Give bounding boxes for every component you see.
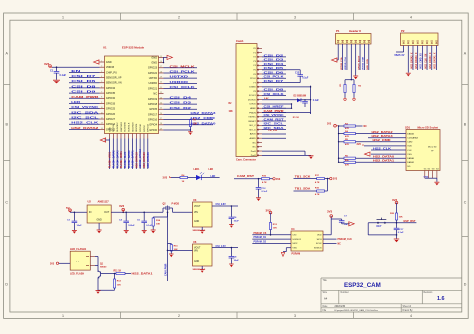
svg-text:U0RXD: U0RXD xyxy=(148,81,157,85)
wire power to LED flash xyxy=(59,262,70,264)
svg-text:10uF: 10uF xyxy=(234,260,240,262)
power rail vertical wire right of Cam1 xyxy=(310,86,312,114)
svg-text:GND: GND xyxy=(424,177,429,179)
svg-text:KEY: KEY xyxy=(377,225,382,228)
header P1 body xyxy=(336,34,372,45)
wire PCLK-row extension to rail xyxy=(286,82,300,84)
header P2 body xyxy=(401,33,439,46)
svg-text:GPIO23: GPIO23 xyxy=(148,66,158,70)
switch KEY xyxy=(377,218,387,229)
svg-text:LED: LED xyxy=(211,175,216,178)
resistor R13 pull-up xyxy=(269,223,277,235)
svg-text:CSI_XCLK: CSI_XCLK xyxy=(264,92,284,96)
svg-text:LED_FLASH1: LED_FLASH1 xyxy=(70,248,87,251)
svg-text:GPIO11: GPIO11 xyxy=(113,123,115,132)
svg-text:GPIO19: GPIO19 xyxy=(148,97,158,101)
svg-text:GPIO35: GPIO35 xyxy=(106,91,116,95)
svg-text:GPIO22: GPIO22 xyxy=(148,71,158,75)
P1 vertical net labels xyxy=(340,55,369,70)
svg-text:Number: Number xyxy=(341,291,349,294)
svg-text:C: C xyxy=(5,201,8,205)
svg-text:12: 12 xyxy=(101,117,103,119)
ground below C4 xyxy=(124,229,129,231)
svg-text:NC: NC xyxy=(153,92,157,96)
svg-text:I2C_SCL: I2C_SCL xyxy=(264,122,285,126)
power 3V3 right of R16 xyxy=(273,178,281,181)
terminal circles under resistors xyxy=(344,98,346,100)
svg-text:GPIO26: GPIO26 xyxy=(106,112,116,116)
ground arrow at U1 pin GND left xyxy=(94,60,100,64)
svg-text:HS2_DATA3: HS2_DATA3 xyxy=(191,111,217,115)
svg-text:SIO_D: SIO_D xyxy=(249,129,256,131)
svg-text:PSRAM_D1: PSRAM_D1 xyxy=(254,236,267,239)
P1 pin marks xyxy=(337,40,370,43)
capacitor C3 10uF xyxy=(67,212,82,230)
capacitor C1 0.1uF xyxy=(50,67,67,80)
U1 left pin names xyxy=(106,60,122,131)
svg-text:0.1uF: 0.1uF xyxy=(262,191,268,193)
svg-text:10: 10 xyxy=(101,107,103,109)
svg-text:Micro SD Socket: Micro SD Socket xyxy=(418,125,439,129)
ground below key xyxy=(394,234,400,242)
ground below R8 xyxy=(188,131,193,133)
svg-text:CLK: CLK xyxy=(407,150,412,152)
svg-text:R11 1K: R11 1K xyxy=(114,271,122,273)
resistor R3 47K SD pull-up xyxy=(338,123,356,130)
svg-text:SCLK: SCLK xyxy=(316,243,322,245)
svg-text:U0TXD_P1A: U0TXD_P1A xyxy=(340,57,343,70)
svg-text:15: 15 xyxy=(160,56,162,58)
svg-text:GPIO16: GPIO16 xyxy=(148,118,158,122)
svg-text:10uF: 10uF xyxy=(234,221,240,223)
power 3V3 at LED1 xyxy=(163,176,172,180)
svg-text:CAM_PWR: CAM_PWR xyxy=(71,95,99,99)
svg-text:Cam1: Cam1 xyxy=(236,39,244,43)
capacitor C6 xyxy=(229,205,240,224)
svg-text:10K: 10K xyxy=(229,111,234,113)
svg-text:SENSOR_VN: SENSOR_VN xyxy=(106,81,122,85)
capacitor C17 0.1uF xyxy=(394,223,404,235)
svg-text:GND: GND xyxy=(151,60,157,64)
svg-text:3V3: 3V3 xyxy=(333,178,338,181)
svg-text:9: 9 xyxy=(101,102,102,104)
svg-text:47K: 47K xyxy=(345,135,349,138)
svg-text:VDD33: VDD33 xyxy=(106,65,115,69)
wire PWDN row to rail bottom xyxy=(262,112,311,114)
svg-text:FLASH_CMD1: FLASH_CMD1 xyxy=(120,151,123,168)
svg-text:DGND: DGND xyxy=(249,87,256,89)
regulator U2 designator xyxy=(88,200,110,204)
svg-text:CSI_D6: CSI_D6 xyxy=(264,70,285,74)
svg-text:5: 5 xyxy=(101,81,102,83)
junction CAM_RST xyxy=(258,178,260,180)
svg-text:1.6: 1.6 xyxy=(437,296,445,302)
resistor R17 4.7K xyxy=(315,175,328,184)
red labels near cam lower rows xyxy=(264,98,299,132)
wire CAM_PWR to U6 VIN xyxy=(167,250,193,252)
svg-text:GPIO13: GPIO13 xyxy=(148,123,150,132)
svg-text:47K: 47K xyxy=(345,164,349,167)
svg-text:D: D xyxy=(464,283,467,287)
power circle 3V3 feeding SD pullups xyxy=(327,124,339,128)
resistor R1 (P1) xyxy=(340,80,346,98)
PSRAM SIO3 wire xyxy=(323,238,352,241)
svg-text:D: D xyxy=(5,283,8,287)
ground below C1 xyxy=(53,79,60,81)
U1 right pin names xyxy=(148,55,158,132)
svg-text:HS2_DATA2: HS2_DATA2 xyxy=(71,126,99,130)
svg-text:CSI_2.8V: CSI_2.8V xyxy=(268,130,278,132)
svg-text:0.1uF: 0.1uF xyxy=(60,74,67,77)
svg-text:23: 23 xyxy=(160,97,162,99)
svg-text:U0RXD_P1A: U0RXD_P1A xyxy=(344,57,347,70)
wire AGND row xyxy=(262,137,286,139)
svg-text:NC: NC xyxy=(253,147,257,149)
svg-text:CSI_D7: CSI_D7 xyxy=(71,74,96,78)
regulator U6 body xyxy=(193,244,213,266)
svg-text:HS2_DATA0X: HS2_DATA0X xyxy=(143,152,146,168)
svg-text:AVDD: AVDD xyxy=(250,133,256,136)
svg-text:HS2_DATA1X: HS2_DATA1X xyxy=(135,152,138,168)
svg-text:CD/DATA3: CD/DATA3 xyxy=(407,137,418,140)
svg-text:XCLK1: XCLK1 xyxy=(249,95,257,97)
svg-text:0.1uF: 0.1uF xyxy=(398,232,404,234)
svg-text:4: 4 xyxy=(410,314,412,318)
svg-text:HREF: HREF xyxy=(250,108,257,110)
U1 right wires and net labels xyxy=(164,64,217,125)
PSRAM pin names xyxy=(292,235,322,250)
svg-text:PSRAM_CS: PSRAM_CS xyxy=(254,232,267,235)
svg-text:VIN: VIN xyxy=(194,250,198,252)
ground arrow at SD VSS xyxy=(365,152,407,156)
svg-text:AMS1117: AMS1117 xyxy=(98,200,110,204)
resistor R16 4.7K xyxy=(259,176,273,185)
wire joining SD mount pins xyxy=(424,177,437,179)
svg-text:18: 18 xyxy=(160,71,162,73)
svg-text:HS2_DATA2_X: HS2_DATA2_X xyxy=(410,52,413,68)
svg-text:Cam_Connector: Cam_Connector xyxy=(236,158,256,162)
svg-text:A4: A4 xyxy=(324,297,328,301)
svg-text:ESP-32S Module: ESP-32S Module xyxy=(122,46,145,50)
svg-text:DATA2: DATA2 xyxy=(407,132,415,135)
svg-text:P-MOS: P-MOS xyxy=(172,203,180,205)
svg-text:SD1: SD1 xyxy=(405,125,411,129)
svg-text:RESET: RESET xyxy=(249,121,257,123)
zone letters right xyxy=(464,52,467,287)
svg-text:R1 1K: R1 1K xyxy=(293,117,300,119)
svg-text:DATA0: DATA0 xyxy=(407,157,415,160)
junction at C3 xyxy=(74,212,76,214)
P1 pin4 wire to resistors xyxy=(345,79,351,81)
U1 right pin stubs xyxy=(159,56,164,131)
ground arrow right of U1 xyxy=(164,56,168,58)
svg-text:CSI_D8: CSI_D8 xyxy=(264,88,285,92)
svg-text:HS2_CLK: HS2_CLK xyxy=(71,121,100,125)
transistor Q1 S8050 xyxy=(98,264,107,282)
svg-text:U2: U2 xyxy=(88,200,92,204)
svg-text:CSI_1.5V: CSI_1.5V xyxy=(216,245,227,248)
svg-text:U0TXD: U0TXD xyxy=(149,76,158,80)
svg-text:LED: LED xyxy=(209,169,214,171)
svg-text:Title: Title xyxy=(323,279,328,282)
svg-text:3: 3 xyxy=(294,15,296,19)
capacitor C5 0.1uF xyxy=(137,212,153,231)
svg-text:Pad1: Pad1 xyxy=(251,155,257,157)
svg-text:SENSOR_VP: SENSOR_VP xyxy=(106,75,122,79)
svg-text:U0TXD: U0TXD xyxy=(170,75,189,79)
ground below Q1 xyxy=(96,290,101,292)
Cam1 pin stubs xyxy=(257,48,262,156)
SD part texts xyxy=(428,146,437,153)
CAM_PWR vertical wire xyxy=(164,212,168,282)
power 3V3 above key xyxy=(392,198,398,213)
svg-text:LED: LED xyxy=(71,100,81,104)
svg-text:3V3: 3V3 xyxy=(266,208,272,212)
svg-text:10uF: 10uF xyxy=(77,225,83,227)
LED1 labels xyxy=(194,169,214,171)
PSRAM VDD wire xyxy=(323,216,331,235)
svg-text:0.1uF: 0.1uF xyxy=(146,225,152,227)
svg-text:HS2_CLK: HS2_CLK xyxy=(373,146,392,150)
svg-text:27: 27 xyxy=(160,118,162,120)
svg-text:GND: GND xyxy=(106,60,112,64)
wire Q1 base to R11 xyxy=(103,273,116,275)
ground arrow left of P1 pin1 xyxy=(337,59,339,61)
svg-text:FLASH_DATA1: FLASH_DATA1 xyxy=(132,150,135,168)
ground below C5 xyxy=(142,229,147,231)
svg-text:VIN: VIN xyxy=(194,212,198,214)
wire HS2_DATA0 to SD xyxy=(356,155,407,159)
wire DVDD row xyxy=(262,103,292,105)
svg-text:NC: NC xyxy=(338,243,342,245)
wire HREF row xyxy=(262,107,292,109)
micro SD socket SD1 designator xyxy=(405,125,438,129)
svg-text:HS2_DATA3_X: HS2_DATA3_X xyxy=(415,52,418,68)
LED flash body xyxy=(70,251,90,270)
Cam1 pin names xyxy=(248,48,257,157)
svg-text:VDD: VDD xyxy=(407,146,412,148)
svg-text:CHIP_PU: CHIP_PU xyxy=(106,70,117,74)
U6 pin texts xyxy=(194,248,201,263)
svg-text:GND_5VIN: GND_5VIN xyxy=(367,59,369,70)
svg-text:NC: NC xyxy=(253,142,257,144)
svg-text:7: 7 xyxy=(101,92,102,94)
svg-text:TB1_SDA: TB1_SDA xyxy=(295,187,312,191)
capacitor C4 100uF xyxy=(119,212,135,231)
PSRAM SCLK wire xyxy=(323,243,341,245)
P2 vertical net labels xyxy=(410,52,436,68)
svg-text:CSI_D7: CSI_D7 xyxy=(264,79,285,83)
wire 5V to U2 IN xyxy=(70,211,87,213)
U3 pin texts xyxy=(194,206,201,223)
svg-text:ESP_RST: ESP_RST xyxy=(404,219,416,223)
power 3V3 at PSRAM VDD xyxy=(330,215,333,218)
wire R4 to LED1 xyxy=(188,177,197,179)
svg-text:HS2_DATA0_X: HS2_DATA0_X xyxy=(429,52,432,68)
svg-text:SDI/SD1: SDI/SD1 xyxy=(136,123,138,132)
svg-text:FLASH_VSS1: FLASH_VSS1 xyxy=(109,151,112,168)
wire 3V3 to R4 xyxy=(171,177,180,179)
svg-text:DVDD: DVDD xyxy=(250,104,257,106)
ground below C12 xyxy=(256,197,261,199)
svg-text:4.7K: 4.7K xyxy=(315,193,320,196)
svg-text:U1: U1 xyxy=(103,46,107,50)
power 5V input flag xyxy=(66,206,71,213)
svg-text:AGND: AGND xyxy=(249,137,256,140)
svg-text:U4: U4 xyxy=(291,227,295,231)
ground below Pad wires xyxy=(305,155,314,159)
junction and tie to 3V3 xyxy=(327,178,329,191)
svg-text:4: 4 xyxy=(410,15,412,19)
resistor R5 47K SD pull-up xyxy=(338,139,356,146)
ground below C8 xyxy=(229,263,234,265)
svg-text:Size: Size xyxy=(323,292,328,294)
svg-text:SIO2: SIO2 xyxy=(292,243,298,245)
svg-text:3V3: 3V3 xyxy=(357,143,362,146)
title block outline xyxy=(321,278,462,312)
svg-text:10K: 10K xyxy=(193,124,198,126)
svg-text:26: 26 xyxy=(160,113,162,115)
svg-text:SCK/CLK: SCK/CLK xyxy=(129,122,131,132)
svg-text:17: 17 xyxy=(160,66,162,68)
svg-text:4.7K: 4.7K xyxy=(262,181,267,184)
svg-text:CSI_VSYNC: CSI_VSYNC xyxy=(71,105,99,109)
svg-text:29: 29 xyxy=(160,128,162,130)
micro SD socket body xyxy=(406,130,440,171)
U1 left wires and net labels xyxy=(69,69,100,130)
svg-text:CSI_XCLK: CSI_XCLK xyxy=(170,85,197,89)
svg-text:CSI_MCLK: CSI_MCLK xyxy=(170,64,197,68)
svg-text:4: 4 xyxy=(101,76,102,78)
svg-text:VOUT: VOUT xyxy=(194,206,201,208)
svg-text:CMD: CMD xyxy=(407,142,412,144)
svg-text:24: 24 xyxy=(160,102,162,104)
svg-text:U6: U6 xyxy=(193,240,197,244)
svg-text:HS2_DATA1: HS2_DATA1 xyxy=(373,159,394,163)
svg-text:GPIO32: GPIO32 xyxy=(106,96,116,100)
svg-text:VSS: VSS xyxy=(292,248,297,250)
ground below C6 xyxy=(229,224,234,226)
wire HS2_CLK to SD xyxy=(371,146,406,150)
svg-text:Header 8: Header 8 xyxy=(349,29,361,33)
wire rail to U3 VIN xyxy=(173,211,193,213)
svg-text:SWP/SD3: SWP/SD3 xyxy=(121,121,123,132)
svg-text:Date: Date xyxy=(323,305,329,308)
svg-text:10K: 10K xyxy=(156,224,160,226)
svg-text:22: 22 xyxy=(160,92,162,94)
header P1 designator xyxy=(336,29,361,33)
U1 bottom pin names (vertical) xyxy=(109,121,149,132)
svg-text:P1: P1 xyxy=(336,29,340,33)
svg-text:SHD/SD2: SHD/SD2 xyxy=(117,122,119,132)
svg-text:U0TXD_HDR: U0TXD_HDR xyxy=(363,56,365,70)
wire joining U1 GND pins right xyxy=(163,57,165,62)
ground below C3 xyxy=(72,229,77,231)
svg-text:GPIO27: GPIO27 xyxy=(106,117,116,121)
capacitor C12 0.1uF xyxy=(256,179,268,198)
svg-text:SI/SIO0: SI/SIO0 xyxy=(314,248,322,250)
svg-text:HS2_CMD_XX: HS2_CMD_XX xyxy=(421,53,423,69)
svg-text:VSS: VSS xyxy=(407,154,412,156)
capacitor C8 xyxy=(229,247,240,264)
zone letters left xyxy=(5,52,8,287)
svg-text:GPIO21: GPIO21 xyxy=(148,86,158,90)
svg-text:8: 8 xyxy=(101,97,102,99)
svg-text:14: 14 xyxy=(101,128,103,130)
svg-text:I2C_SCL: I2C_SCL xyxy=(71,116,98,120)
svg-text:10K: 10K xyxy=(399,217,403,219)
svg-text:GPIO16: GPIO16 xyxy=(140,123,142,132)
U1 bottom pin stubs xyxy=(110,134,148,139)
resistor labels near GPIO right xyxy=(229,103,234,113)
svg-text:21: 21 xyxy=(160,87,162,89)
svg-text:P2: P2 xyxy=(401,29,405,33)
svg-text:CSI_D3: CSI_D3 xyxy=(170,101,192,105)
resistor R4 47K SD pull-up xyxy=(338,130,356,138)
wire TB1_SCK xyxy=(294,174,317,178)
svg-text:20: 20 xyxy=(160,82,162,84)
svg-text:FLASH_CLK1: FLASH_CLK1 xyxy=(124,151,127,168)
svg-text:SCS/CMD: SCS/CMD xyxy=(125,121,127,132)
svg-text:GPIO17: GPIO17 xyxy=(148,112,158,116)
U3 VOUT wire CSI_2.8V xyxy=(212,203,238,206)
svg-text:GPIO4: GPIO4 xyxy=(149,123,157,127)
resistor R2 (P1) xyxy=(353,80,362,98)
svg-text:2.8V: 2.8V xyxy=(264,98,269,100)
svg-text:CSI_D4: CSI_D4 xyxy=(170,95,192,99)
capacitor C7 1uF xyxy=(339,215,349,225)
svg-text:CSI_D8: CSI_D8 xyxy=(71,84,96,88)
svg-text:VSYNC: VSYNC xyxy=(248,117,256,119)
ground at U3 GND xyxy=(200,227,205,234)
svg-text:3V3: 3V3 xyxy=(119,204,125,208)
capacitor C14 xyxy=(302,99,308,107)
svg-text:GPIO0_BOOT: GPIO0_BOOT xyxy=(358,55,360,70)
svg-text:GPIO25: GPIO25 xyxy=(106,107,116,111)
svg-text:CSI_D3: CSI_D3 xyxy=(264,58,285,62)
svg-text:GND: GND xyxy=(194,261,199,263)
wire U2 OUT rail xyxy=(111,211,163,213)
svg-text:PCLK: PCLK xyxy=(250,78,256,80)
svg-text:Micro SD: Micro SD xyxy=(428,146,437,149)
resistor R15 10K (CAM_PWR) xyxy=(168,244,179,254)
svg-text:19: 19 xyxy=(160,77,162,79)
power 3V3 at U1 VDD33 xyxy=(49,65,52,68)
svg-text:PSRAM: PSRAM xyxy=(292,253,301,256)
svg-text:I2C_SDA: I2C_SDA xyxy=(71,110,100,114)
svg-text:TB1_SCK: TB1_SCK xyxy=(295,174,312,178)
junction at R12 xyxy=(114,273,116,275)
svg-text:13: 13 xyxy=(101,123,103,125)
svg-text:HS2_CLK_XX: HS2_CLK_XX xyxy=(425,53,427,68)
zone ticks top xyxy=(121,13,354,318)
wire R12 to Q1 emitter ground xyxy=(98,289,115,291)
svg-text:CSI_D4: CSI_D4 xyxy=(264,62,285,66)
svg-text:2: 2 xyxy=(101,66,102,68)
svg-text:5V: 5V xyxy=(66,206,70,210)
svg-text:SIO3: SIO3 xyxy=(317,239,323,241)
regulator U3 body xyxy=(193,202,213,227)
svg-text:SO/SIO1: SO/SIO1 xyxy=(292,239,302,241)
svg-text:CSI_PCLK: CSI_PCLK xyxy=(170,69,197,73)
svg-text:VOUT: VOUT xyxy=(194,248,201,250)
ESP-32S module U1 body xyxy=(105,56,159,134)
resistor R14 10K xyxy=(152,217,161,230)
svg-text:VBAT+5V: VBAT+5V xyxy=(394,54,405,57)
svg-text:2: 2 xyxy=(178,15,180,19)
LED1 diode xyxy=(196,172,204,180)
ground under SD socket xyxy=(434,178,439,185)
